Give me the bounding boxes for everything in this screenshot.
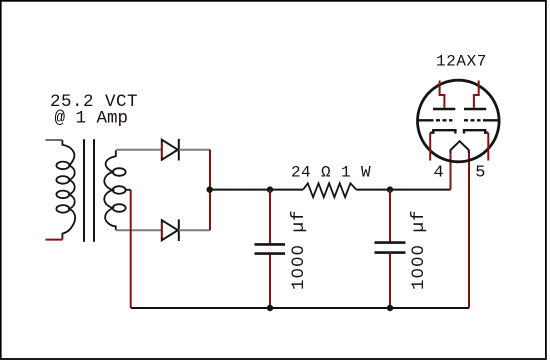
diode D2 bbox=[162, 219, 179, 241]
tube U1 cathode A bbox=[430, 130, 455, 133]
tube U1 plate lead A bbox=[440, 81, 445, 108]
diode D1 bbox=[162, 139, 179, 161]
wire: center tap down bbox=[130, 190, 132, 308]
svg-text:4: 4 bbox=[434, 164, 444, 183]
tube U1 grid A bbox=[418, 119, 453, 121]
node: C1 top junction bbox=[267, 186, 273, 192]
tube U1 cathode B bbox=[464, 130, 488, 133]
capacitor C1 bbox=[255, 244, 286, 253]
wire: C1 top stub bbox=[269, 190, 271, 244]
svg-text:1000 µf: 1000 µf bbox=[289, 209, 309, 290]
capacitor C2 bbox=[375, 243, 406, 253]
diode D1 cathode wire bbox=[179, 149, 210, 151]
tube U1 envelope bbox=[418, 80, 500, 162]
transformer T1 primary top lead bbox=[46, 139, 63, 141]
wire: pin 5 drop bbox=[468, 152, 470, 308]
wire: rectifier output vertical bbox=[209, 150, 211, 231]
transformer T1 primary bottom lead bbox=[46, 239, 63, 241]
transformer T1 secondary winding bbox=[104, 150, 116, 230]
resistor R1 bbox=[303, 183, 356, 197]
transformer T1 primary winding bbox=[62, 140, 75, 240]
tube U1 plate lead B bbox=[474, 81, 479, 108]
diode D1 anode wire bbox=[116, 149, 161, 151]
wire: C2 bottom stub bbox=[389, 253, 391, 308]
node: rectifier output junction bbox=[207, 186, 213, 192]
wire: bottom rail bbox=[131, 307, 469, 309]
node: C2 bottom junction bbox=[387, 305, 393, 311]
transformer T1 primary winding loops bbox=[56, 162, 69, 213]
wire: C2 top stub bbox=[389, 190, 391, 242]
tube U1 plate A bbox=[433, 108, 455, 111]
tube U1 heater bbox=[451, 141, 469, 153]
tube U1 grid B bbox=[464, 119, 499, 121]
svg-text:12AX7: 12AX7 bbox=[436, 53, 487, 71]
diode D2 anode wire bbox=[116, 229, 161, 231]
tube U1 cathode A lead bbox=[429, 133, 431, 161]
tube U1 cathode B lead bbox=[487, 133, 489, 161]
wire: pin 4 riser bbox=[450, 152, 452, 190]
svg-text:5: 5 bbox=[475, 164, 485, 183]
diode D2 cathode wire bbox=[179, 229, 210, 231]
svg-text:1000 µf: 1000 µf bbox=[409, 209, 429, 290]
tube U1 plate B bbox=[464, 108, 486, 111]
transformer T1 secondary winding loops bbox=[113, 168, 126, 212]
node: C1 bottom junction bbox=[267, 305, 273, 311]
node: C2 top junction bbox=[387, 186, 393, 192]
wire: top bus right segment bbox=[356, 189, 450, 191]
diode D1 red anode edge bbox=[161, 143, 163, 158]
diode D2 red anode edge bbox=[161, 223, 163, 238]
svg-text:@ 1 Amp: @ 1 Amp bbox=[55, 108, 129, 128]
transformer T1 core bbox=[84, 139, 94, 241]
wire: top bus left segment bbox=[210, 189, 303, 191]
wire: C1 bottom stub bbox=[269, 255, 271, 309]
wire: center tap stub bbox=[125, 189, 131, 191]
svg-text:24 Ω 1 W: 24 Ω 1 W bbox=[291, 164, 371, 182]
